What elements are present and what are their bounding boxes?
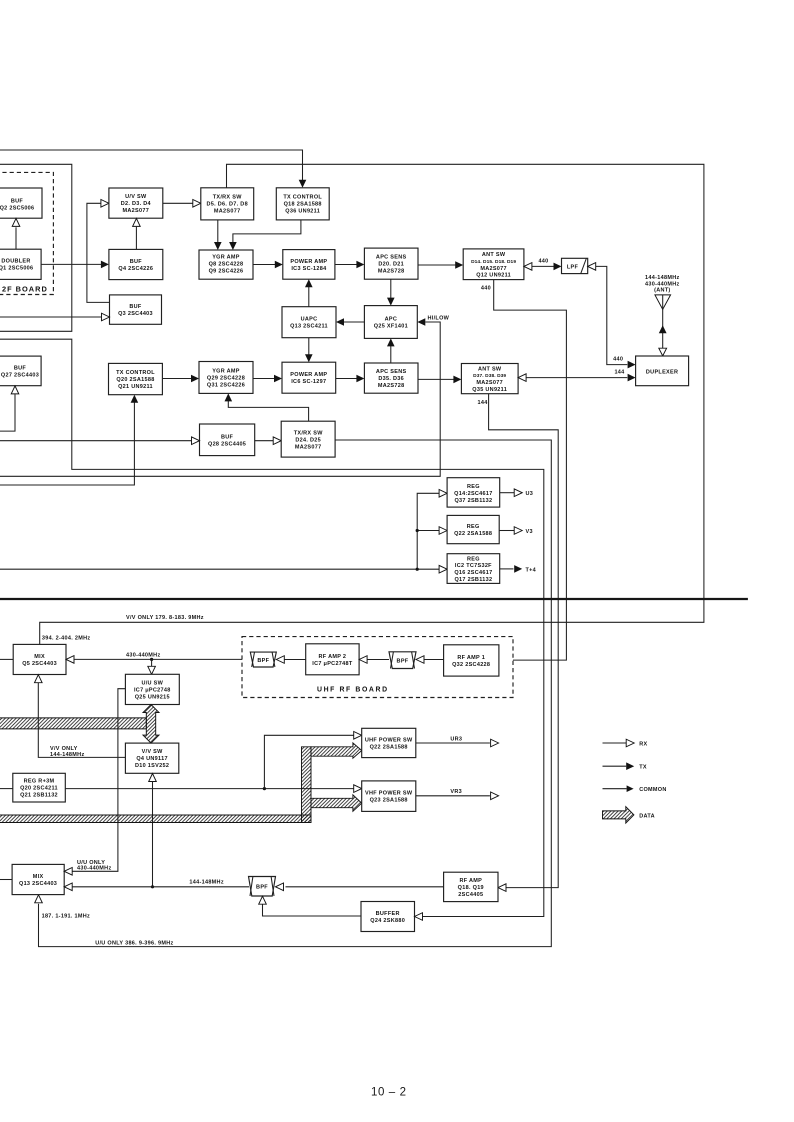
svg-text:D35. D36: D35. D36 xyxy=(378,376,404,382)
wire TX/RX SW D24 top to YGR Q29 bottom xyxy=(228,401,308,421)
svg-text:187. 1-191. 1MHz: 187. 1-191. 1MHz xyxy=(42,914,91,920)
wire APC to UAPC xyxy=(344,321,365,323)
svg-text:T+4: T+4 xyxy=(526,567,537,573)
svg-text:REG: REG xyxy=(467,556,480,562)
wire UAPC up to POWER AMP IC3 xyxy=(308,287,310,307)
POWER AMP IC6 box xyxy=(282,362,336,393)
svg-text:Q25 UN9215: Q25 UN9215 xyxy=(135,694,170,700)
wire U/U SW down to MIX Q13 (U/U ONLY 430-440MHz) xyxy=(72,689,125,872)
svg-text:430-440MHz: 430-440MHz xyxy=(77,866,112,872)
svg-text:ANT SW: ANT SW xyxy=(478,366,502,372)
wire RF AMP 2 to BPF 2 xyxy=(359,656,367,664)
svg-text:RF AMP 1: RF AMP 1 xyxy=(457,655,485,661)
wire feed BUF Q28 from left edge xyxy=(0,440,192,442)
APC Q25 box xyxy=(364,306,417,339)
U/U SW box xyxy=(125,674,179,704)
wire UAPC down to POWER AMP IC6 xyxy=(308,338,310,355)
svg-text:Q1 2SC5006: Q1 2SC5006 xyxy=(0,266,33,272)
wire MIX Q5 bottom from V/V SW xyxy=(35,675,43,683)
svg-text:YGR AMP: YGR AMP xyxy=(212,368,240,374)
wire: common rail from left edge down to BUFFER Q24 xyxy=(0,339,544,916)
svg-text:APC: APC xyxy=(385,316,398,322)
svg-text:BUF: BUF xyxy=(129,304,142,310)
2F board dashed outline xyxy=(0,172,53,294)
svg-text:D20. D21: D20. D21 xyxy=(378,262,404,268)
YGR AMP Q29 Q31 box xyxy=(199,362,253,394)
RF AMP Q18 Q19 box xyxy=(444,872,498,901)
TX CONTROL Q20 box xyxy=(109,363,163,394)
wire REG to U3 xyxy=(500,492,515,494)
svg-text:Q9 2SC4226: Q9 2SC4226 xyxy=(209,268,244,274)
svg-text:Q14:2SC4617: Q14:2SC4617 xyxy=(454,491,492,497)
wire APC SENS D35 up to APC xyxy=(390,346,392,363)
wire feed into BUF Q27 bottom xyxy=(0,394,15,431)
RF AMP 2 box xyxy=(306,644,359,675)
svg-text:ANT SW: ANT SW xyxy=(482,252,506,258)
svg-text:D10 1SV252: D10 1SV252 xyxy=(135,763,169,769)
svg-text:HI/LOW: HI/LOW xyxy=(428,316,450,322)
svg-text:BUF: BUF xyxy=(130,259,143,265)
svg-text:MA2S728: MA2S728 xyxy=(378,383,405,389)
svg-text:V3: V3 xyxy=(526,529,533,535)
svg-text:IC6 SC-1297: IC6 SC-1297 xyxy=(291,379,326,385)
wire BUF Q28 to TX/RX SW D24 xyxy=(255,440,274,442)
svg-text:Q23 2SA1588: Q23 2SA1588 xyxy=(370,798,408,804)
POWER AMP IC3 box xyxy=(283,250,335,280)
svg-text:MIX: MIX xyxy=(33,874,44,880)
wire POWER AMP IC6 to APC SENS D35 xyxy=(336,378,357,380)
svg-text:APC SENS: APC SENS xyxy=(376,255,407,261)
svg-text:D14. D15. D18. D19: D14. D15. D18. D19 xyxy=(471,259,516,265)
wire: V/V ONLY 179.8-183.9MHz loop from TX/RX SW D5 to MIX Q5 xyxy=(40,164,704,644)
svg-text:Q20 2SA1588: Q20 2SA1588 xyxy=(116,377,154,383)
svg-text:Q4 UN9117: Q4 UN9117 xyxy=(136,756,167,762)
svg-text:VHF POWER SW: VHF POWER SW xyxy=(365,791,413,797)
wire LPF to DUPLEXER with 440 label xyxy=(588,263,596,271)
wire branch down into U/U SW xyxy=(151,659,153,666)
wire ANT SW D37 to DUPLEXER with 144 label xyxy=(518,374,526,382)
MIX Q13 box xyxy=(12,864,64,894)
svg-text:YGR AMP: YGR AMP xyxy=(212,254,240,260)
wire REG to V3 xyxy=(499,530,514,532)
legend TX arrow xyxy=(603,765,627,767)
svg-text:Q29 2SC4228: Q29 2SC4228 xyxy=(207,375,245,381)
wire REG to T+4 xyxy=(500,568,514,570)
buffer Q27 box xyxy=(0,356,41,386)
wire BUFFER to BPF bottom xyxy=(259,896,267,904)
svg-text:VR3: VR3 xyxy=(450,789,462,795)
wire 430-440MHz line from BPF to MIX Q5 xyxy=(66,656,74,664)
buffer Q2 box xyxy=(0,188,42,218)
svg-text:U/V SW: U/V SW xyxy=(125,194,147,200)
wire BUF Q4 up to U/V SW xyxy=(135,227,137,250)
BPF 144 filter xyxy=(249,877,276,897)
wire UHF POWER SW to UR3 xyxy=(416,742,490,744)
wire: off-page U loop at left edge xyxy=(0,164,72,331)
DUPLEXER box xyxy=(636,356,689,386)
svg-text:MA2S077: MA2S077 xyxy=(214,209,241,215)
svg-text:TX: TX xyxy=(639,765,647,771)
svg-text:IC2 TC7S32F: IC2 TC7S32F xyxy=(455,563,492,569)
svg-text:10 – 2: 10 – 2 xyxy=(371,1087,407,1099)
U/V SW D2 D3 D4 box xyxy=(109,188,163,218)
TX/RX SW D5-D8 box xyxy=(201,188,254,220)
wire ANT SW D37 bottom 144 branch down to RF AMP xyxy=(489,394,559,888)
svg-text:BUF: BUF xyxy=(221,434,234,440)
wire ANT SW D14 to LPF with 440 label xyxy=(524,263,532,271)
svg-text:Q20 2SC4211: Q20 2SC4211 xyxy=(20,786,58,792)
svg-text:(ANT): (ANT) xyxy=(654,288,670,294)
svg-text:DUPLEXER: DUPLEXER xyxy=(646,369,678,375)
RF AMP 1 box xyxy=(444,645,499,676)
wire YGR Q29 to POWER AMP IC6 xyxy=(253,378,274,380)
REG Q22 box xyxy=(447,515,499,543)
wire APC SENS to ANT SW xyxy=(418,264,456,266)
svg-text:UHF RF BOARD: UHF RF BOARD xyxy=(317,686,389,693)
buffer Q3 box xyxy=(110,295,162,324)
svg-text:DOUBLER: DOUBLER xyxy=(1,259,30,265)
wire section divider line xyxy=(0,598,748,600)
svg-text:440: 440 xyxy=(481,286,491,292)
wire U/V SW to TX/RX SW xyxy=(163,202,193,204)
svg-text:BPF: BPF xyxy=(257,658,269,664)
wire REG feed line from left edge xyxy=(0,568,439,570)
wire: HI/LOW control from left edge to APC xyxy=(0,322,440,476)
svg-text:POWER AMP: POWER AMP xyxy=(290,259,327,265)
buffer Q4 box xyxy=(109,249,163,279)
svg-text:MA2S728: MA2S728 xyxy=(378,269,405,275)
svg-text:394. 2-404. 2MHz: 394. 2-404. 2MHz xyxy=(42,635,91,641)
MIX Q5 box xyxy=(13,644,66,674)
APC SENS D35 D36 box xyxy=(364,363,418,393)
wire TX/RX SW D24 to MIX Q13 bottom (U/U ONLY 386.9-396.9MHz) xyxy=(39,440,552,947)
REG R+3M box xyxy=(13,773,66,802)
svg-text:MIX: MIX xyxy=(34,654,45,660)
wire ANT SW D14 bottom 440 branch down to RF AMP 1 xyxy=(494,280,567,660)
svg-text:Q27 2SC4403: Q27 2SC4403 xyxy=(1,372,39,378)
svg-text:144: 144 xyxy=(478,400,489,406)
wire arrow into BUFFER right xyxy=(415,913,423,921)
svg-text:Q18. Q19: Q18. Q19 xyxy=(458,885,484,891)
wire V/V SW bottom down to 144 line xyxy=(149,774,157,782)
REG Q14 Q37 box xyxy=(447,478,500,507)
svg-text:COMMON: COMMON xyxy=(639,787,666,793)
svg-text:Q24 2SK880: Q24 2SK880 xyxy=(370,918,405,924)
BPF 2 filter xyxy=(389,652,416,669)
svg-text:Q25 XF1401: Q25 XF1401 xyxy=(374,323,408,329)
svg-text:BPF: BPF xyxy=(397,659,409,665)
wire BPF1 to RF AMP 2 xyxy=(276,656,284,664)
data bus riser to power switches xyxy=(302,747,312,823)
svg-text:Q21 2SB1132: Q21 2SB1132 xyxy=(20,793,58,799)
wire APC SENS D35 to ANT SW D37 xyxy=(418,378,454,380)
svg-text:U/U SW: U/U SW xyxy=(141,680,163,686)
svg-text:144-148MHz: 144-148MHz xyxy=(645,275,680,281)
svg-text:2F BOARD: 2F BOARD xyxy=(2,285,48,294)
wire TX CONTROL Q20 to YGR AMP Q29 xyxy=(162,378,191,380)
svg-text:IC7 μPC2748: IC7 μPC2748 xyxy=(134,687,171,693)
svg-text:430-440MHz: 430-440MHz xyxy=(126,652,161,658)
svg-text:IC7 μPC2748T: IC7 μPC2748T xyxy=(312,661,353,667)
svg-text:Q32 2SC4228: Q32 2SC4228 xyxy=(452,662,490,668)
svg-text:Q8 2SC4228: Q8 2SC4228 xyxy=(209,261,244,267)
wire BPF2 to RF AMP 1 xyxy=(416,656,424,664)
wire doubler to BUF Q4 xyxy=(41,263,101,265)
svg-text:440: 440 xyxy=(538,259,548,265)
wire feed TX CONTROL Q20 from left edge xyxy=(0,402,134,485)
wire REG R+3M to VHF POWER SW xyxy=(65,788,354,790)
svg-text:UHF POWER SW: UHF POWER SW xyxy=(365,738,413,744)
svg-text:Q3 2SC4403: Q3 2SC4403 xyxy=(118,311,153,317)
LPF box xyxy=(562,258,588,273)
svg-text:D5. D6. D7. D8: D5. D6. D7. D8 xyxy=(206,202,248,208)
svg-text:RF AMP 2: RF AMP 2 xyxy=(319,654,347,660)
svg-text:BUFFER: BUFFER xyxy=(376,911,400,917)
svg-text:LPF: LPF xyxy=(567,264,579,270)
svg-text:Q4 2SC4226: Q4 2SC4226 xyxy=(118,266,153,272)
node junction dots on REG feed xyxy=(416,529,419,532)
V/V SW box xyxy=(125,743,178,773)
svg-text:MA2S077: MA2S077 xyxy=(295,444,322,450)
legend RX arrow xyxy=(603,742,627,744)
svg-text:REG: REG xyxy=(467,484,480,490)
svg-text:Q17 2SB1132: Q17 2SB1132 xyxy=(454,577,492,583)
svg-text:V/V SW: V/V SW xyxy=(142,749,164,755)
svg-text:Q22 2SA1588: Q22 2SA1588 xyxy=(370,745,408,751)
data bus arm into VHF POWER SW xyxy=(311,795,362,811)
wire VHF POWER SW to VR3 xyxy=(416,795,490,797)
svg-text:UAPC: UAPC xyxy=(301,317,318,323)
svg-text:Q31 2SC4226: Q31 2SC4226 xyxy=(207,382,245,388)
svg-text:144-148MHz: 144-148MHz xyxy=(189,880,224,886)
wire MIX Q5 left stub xyxy=(0,658,13,660)
svg-text:TX/RX SW: TX/RX SW xyxy=(213,195,242,201)
svg-text:MA2S077: MA2S077 xyxy=(123,208,150,214)
svg-text:2SC4405: 2SC4405 xyxy=(458,892,483,898)
VHF POWER SW box xyxy=(362,781,416,812)
svg-text:U/U ONLY 386. 9-396. 9MHz: U/U ONLY 386. 9-396. 9MHz xyxy=(95,940,173,946)
svg-text:TX CONTROL: TX CONTROL xyxy=(116,370,155,376)
svg-text:Q18 2SA1588: Q18 2SA1588 xyxy=(284,202,322,208)
buffer Q28 box xyxy=(200,424,255,456)
data bus arm into UHF POWER SW xyxy=(311,743,362,758)
svg-text:D24. D25: D24. D25 xyxy=(295,437,321,443)
svg-text:D2. D3. D4: D2. D3. D4 xyxy=(121,201,152,207)
node junction on 430-440 line xyxy=(150,658,153,661)
antenna feed up arrow xyxy=(659,325,667,333)
svg-text:Q13 2SC4211: Q13 2SC4211 xyxy=(290,324,328,330)
svg-text:Q16 2SC4617: Q16 2SC4617 xyxy=(454,570,492,576)
svg-text:V/V ONLY 179. 8-183. 9MHz: V/V ONLY 179. 8-183. 9MHz xyxy=(126,615,204,621)
TX/RX SW D24 D25 box xyxy=(281,421,335,457)
svg-text:Q21 UN9211: Q21 UN9211 xyxy=(118,384,153,390)
svg-text:APC SENS: APC SENS xyxy=(376,369,407,375)
svg-text:D37. D38. D39: D37. D38. D39 xyxy=(473,373,506,379)
svg-text:BUF: BUF xyxy=(11,198,24,204)
svg-text:Q37 2SB1132: Q37 2SB1132 xyxy=(454,498,492,504)
APC SENS D20 D21 box xyxy=(364,248,418,279)
UHF POWER SW box xyxy=(362,728,416,757)
svg-text:144: 144 xyxy=(614,369,625,375)
svg-text:Q22 2SA1588: Q22 2SA1588 xyxy=(454,531,492,537)
wire feed into BUF Q3 from left edge xyxy=(0,316,102,318)
svg-text:Q35 UN9211: Q35 UN9211 xyxy=(472,387,507,393)
svg-text:BPF: BPF xyxy=(256,884,268,890)
wire 144-148MHz line MIX Q13 to RF AMP xyxy=(64,883,72,891)
svg-text:MA2S077: MA2S077 xyxy=(476,380,503,386)
wire MIX Q13 left stub xyxy=(0,879,12,881)
svg-text:RF AMP: RF AMP xyxy=(459,878,482,884)
wire POWER AMP to APC SENS xyxy=(335,264,357,266)
wire YGR to POWER AMP IC3 xyxy=(253,264,275,266)
BPF 1 filter xyxy=(250,652,276,667)
svg-text:Q28 2SC4405: Q28 2SC4405 xyxy=(208,441,246,447)
svg-text:Q5 2SC4403: Q5 2SC4403 xyxy=(22,661,57,667)
REG IC2 Q16 Q17 box xyxy=(447,554,500,584)
svg-text:Q13 2SC4403: Q13 2SC4403 xyxy=(19,881,57,887)
svg-text:UR3: UR3 xyxy=(450,736,462,742)
svg-text:TX/RX SW: TX/RX SW xyxy=(294,430,323,436)
svg-text:Q2 2SC5006: Q2 2SC5006 xyxy=(0,205,34,211)
node junction on power line xyxy=(263,787,266,790)
wire REG R+3M left stub xyxy=(0,788,13,790)
TX CONTROL Q18 box xyxy=(276,188,329,220)
svg-text:440: 440 xyxy=(613,357,623,363)
wire APC SENS D20 down to APC xyxy=(390,279,392,298)
data bus horizontal band upper xyxy=(0,718,146,729)
data bus vertical between U/U SW and V/V SW xyxy=(143,705,159,744)
legend COMMON arrow xyxy=(603,788,627,790)
YGR AMP Q8 Q9 box xyxy=(199,250,253,279)
svg-text:TX CONTROL: TX CONTROL xyxy=(283,195,322,201)
ANT SW D14 box xyxy=(463,249,524,280)
BUFFER Q24 box xyxy=(361,902,415,932)
wire TX/RX SW down to YGR AMP xyxy=(217,220,219,243)
svg-text:V/V ONLY: V/V ONLY xyxy=(50,746,78,752)
svg-text:RX: RX xyxy=(639,741,647,747)
data bus horizontal band lower xyxy=(0,815,311,823)
svg-text:MA2S077: MA2S077 xyxy=(480,266,507,272)
svg-text:Q36 UN9211: Q36 UN9211 xyxy=(285,209,320,215)
wire doubler Q1 to buffer Q2 xyxy=(15,227,17,249)
UHF RF BOARD dashed outline xyxy=(242,637,513,698)
svg-text:POWER AMP: POWER AMP xyxy=(290,372,327,378)
wire TX CONTROL Q18 down to YGR AMP xyxy=(233,220,301,243)
legend DATA arrow xyxy=(603,807,634,823)
svg-text:BUF: BUF xyxy=(14,365,27,371)
wire: top control line into TX CONTROL Q18 xyxy=(0,150,303,180)
antenna feed down arrow into DUPLEXER xyxy=(659,348,667,356)
ANT SW D37 box xyxy=(461,364,518,394)
svg-text:U3: U3 xyxy=(526,491,534,497)
UAPC Q13 box xyxy=(282,307,336,338)
wire branch up to UHF POWER SW xyxy=(264,735,354,788)
wire BUF Q3 up to U/V SW xyxy=(87,203,110,302)
svg-text:144-148MHz: 144-148MHz xyxy=(50,752,85,758)
svg-text:IC3 SC-1284: IC3 SC-1284 xyxy=(291,266,327,272)
svg-text:Q12 UN9211: Q12 UN9211 xyxy=(476,273,511,279)
doubler Q1 box xyxy=(0,249,41,279)
svg-text:REG: REG xyxy=(467,524,480,530)
svg-text:430-440MHz: 430-440MHz xyxy=(645,281,680,287)
svg-text:REG R+3M: REG R+3M xyxy=(24,779,55,785)
svg-text:DATA: DATA xyxy=(639,814,655,820)
